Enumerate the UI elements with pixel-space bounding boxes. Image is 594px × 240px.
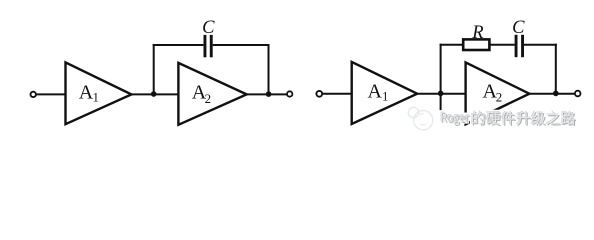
svg-text:C: C	[512, 18, 525, 38]
resistor R	[463, 39, 489, 50]
wire feedback drop to output node	[268, 44, 270, 94]
output terminal (left circuit)	[287, 91, 292, 96]
op-amp A2 (left circuit)	[178, 63, 246, 125]
wire stub below node	[440, 94, 442, 118]
capacitor C (left circuit) plate 1	[204, 35, 207, 57]
wire feedback riser right circuit	[440, 44, 442, 94]
svg-text:A: A	[368, 81, 383, 103]
capacitor C (right circuit) plate 2	[521, 35, 524, 57]
op-amp A1 (left circuit)	[66, 62, 132, 124]
label A2 (right)	[483, 81, 503, 105]
wire A2 to output (right)	[529, 93, 575, 95]
node D (output node, right circuit)	[553, 91, 559, 97]
svg-text:1: 1	[93, 90, 99, 104]
wire input to A1 (right)	[323, 93, 352, 95]
label A1	[79, 81, 99, 104]
node B (output node, left circuit)	[266, 91, 272, 97]
wire A1 to A2	[131, 93, 178, 95]
op-amp A1 (right circuit)	[352, 62, 418, 124]
svg-text:2: 2	[496, 89, 503, 104]
label A1 (right)	[368, 81, 389, 104]
node C (junction between A1 and A2, right circuit)	[438, 91, 444, 97]
capacitor C (left circuit) plate 2	[210, 35, 213, 57]
watermark logo circles	[408, 107, 433, 130]
svg-text:2: 2	[205, 91, 212, 106]
value label C (right circuit)	[512, 18, 525, 38]
node A (junction between A1 and A2, left circuit)	[151, 91, 157, 97]
svg-text:A: A	[79, 81, 94, 103]
label A2	[192, 82, 211, 107]
input terminal (left circuit)	[31, 92, 36, 97]
wire A1 to A2 (right)	[417, 93, 465, 95]
wire rail to resistor	[440, 44, 464, 46]
wire feedback top rail right segment	[213, 44, 270, 46]
op-amp A2 (right circuit)	[466, 62, 530, 124]
wire feedback top rail left segment	[153, 44, 204, 46]
wire resistor to capacitor	[489, 44, 514, 46]
capacitor C (right circuit) plate 1	[515, 35, 518, 57]
value label R	[471, 23, 483, 43]
svg-text:R: R	[471, 23, 483, 43]
svg-text:1: 1	[382, 90, 388, 104]
wire feedback riser left	[153, 44, 155, 94]
wire A2 to output	[247, 93, 287, 95]
input terminal (right circuit)	[316, 91, 322, 97]
wire feedback drop to output node (right)	[555, 44, 557, 94]
value label C (left circuit)	[202, 18, 215, 38]
wire capacitor to drop	[524, 44, 557, 46]
output terminal (right circuit)	[575, 91, 581, 97]
wire input to A1	[37, 93, 66, 95]
svg-text:C: C	[202, 18, 215, 38]
